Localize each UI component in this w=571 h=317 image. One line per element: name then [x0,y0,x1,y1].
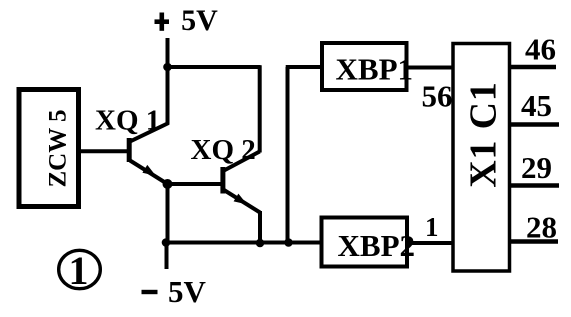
node bottom left [162,238,171,247]
node bottom Q2 emitter [256,239,265,248]
node junction top [163,63,172,72]
transistor XQ1 emitter diagonal [130,161,168,185]
svg-text:XBP2: XBP2 [338,228,416,263]
svg-text:29: 29 [521,150,552,185]
svg-text:5V: 5V [168,274,207,309]
wire XQ2 collector vertical [258,65,262,152]
wire +5V vertical drop [166,38,170,125]
wire pin 46 [510,65,557,70]
node emitter junction [163,179,173,189]
transistor XQ2 collector diagonal [224,152,260,171]
transistor XQ1 emitter arrow [142,165,155,176]
box X1C1 [453,44,510,272]
box XBP1 [322,43,407,90]
wire XQ2 emitter vertical [258,211,262,244]
svg-text:56: 56 [422,79,453,114]
wire to XQ2 base [168,182,222,186]
box ZCW5 [19,90,79,207]
wire to XBP1 [286,65,322,69]
svg-text:45: 45 [521,88,552,123]
wire top horizontal [166,65,261,69]
svg-text:5V: 5V [181,4,218,37]
wire bottom rail [165,241,322,245]
wire XBP2 to X1C1 [407,241,453,245]
wire pin 28 [510,239,558,244]
svg-text:XQ 2: XQ 2 [191,134,256,166]
svg-text:28: 28 [526,210,557,245]
wire emitter junction down [166,184,170,243]
label +5V plus sign [155,19,170,24]
wire pin 29 [510,183,560,188]
transistor XQ2 emitter diagonal [224,190,260,213]
svg-text:XBP1: XBP1 [336,52,414,87]
svg-text:X1 C1: X1 C1 [463,81,505,187]
wire pin 45 [510,122,560,127]
box XBP2 [322,218,408,267]
svg-text:1: 1 [69,248,89,293]
wire ZCW5 to XQ1 base [78,149,131,153]
symbol circled 1 [59,250,101,288]
node bottom feed [284,238,293,247]
svg-text:46: 46 [525,32,556,67]
transistor XQ2 emitter arrow [234,194,247,205]
svg-text:1: 1 [425,212,439,242]
label -5V minus [142,290,158,294]
wire feed vertical to XBP input [286,67,290,243]
transistor XQ1 base bar [127,138,132,162]
wire XBP1 to X1C1 [407,66,454,70]
transistor XQ2 base bar [220,167,225,194]
wire -5V drop [165,243,169,270]
svg-text:ZCW 5: ZCW 5 [45,109,72,187]
transistor XQ1 collector diagonal [130,123,169,142]
